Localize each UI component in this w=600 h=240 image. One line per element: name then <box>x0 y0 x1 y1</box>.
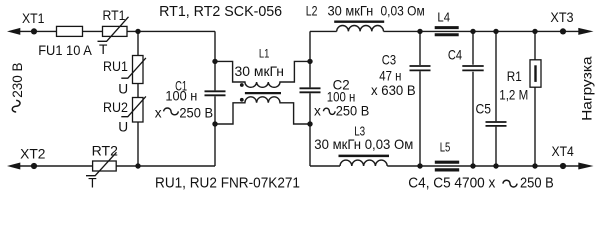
node C3 bottom junction <box>417 163 422 168</box>
svg-text:30 мкГн 0,03 Ом: 30 мкГн 0,03 Ом <box>314 137 413 152</box>
svg-text:250 В: 250 В <box>520 175 554 192</box>
wire bottom-right rail with L3 winding gap <box>310 165 579 167</box>
label C1 voltage x ~250 V <box>155 105 213 120</box>
svg-text:C5: C5 <box>476 102 492 117</box>
svg-text:XT3: XT3 <box>550 10 574 25</box>
svg-text:100 н: 100 н <box>165 89 197 104</box>
svg-text:R1: R1 <box>507 69 522 84</box>
svg-text:U: U <box>118 82 128 97</box>
svg-text:FU1 10 A: FU1 10 A <box>38 43 92 58</box>
thermistor RT1 <box>98 17 129 42</box>
svg-text:x: x <box>314 104 321 119</box>
svg-text:100 н: 100 н <box>327 89 356 104</box>
label C2 voltage x ~250 V <box>314 104 369 119</box>
resistor R1 inner bar <box>534 65 536 82</box>
wire top-right rail with L2 winding gap <box>310 30 579 32</box>
svg-text:x 630 В: x 630 В <box>371 83 416 98</box>
varistor RU1 <box>121 56 146 84</box>
svg-text:Нагрузка: Нагрузка <box>579 56 594 121</box>
svg-text:T: T <box>99 42 108 57</box>
node C1 bottom junction <box>212 121 217 126</box>
wire C2 vertical line x=310 <box>309 31 311 166</box>
capacitor C4 plates <box>462 66 483 70</box>
inductor L2 winding arcs <box>337 25 384 31</box>
node C1 top junction <box>212 59 217 64</box>
wire C3 branch x=420 <box>419 31 421 166</box>
terminal XT3 arrow <box>578 28 593 35</box>
node C4 bottom junction <box>470 163 475 168</box>
node C2 top junction <box>307 59 312 64</box>
svg-text:T: T <box>88 175 97 190</box>
fuse FU1 <box>57 26 83 36</box>
svg-text:RU1: RU1 <box>103 59 128 74</box>
wire L1 top winding path <box>215 61 310 87</box>
node junction RT2/RU2 <box>135 163 140 168</box>
svg-text:C4: C4 <box>448 47 463 62</box>
svg-text:L1: L1 <box>259 47 270 61</box>
svg-text:0,03 Ом: 0,03 Ом <box>381 4 425 19</box>
svg-text:250 В: 250 В <box>179 105 213 120</box>
svg-text:RT1, RT2 SCK-056: RT1, RT2 SCK-056 <box>159 3 282 20</box>
svg-text:230 В: 230 В <box>10 63 25 98</box>
svg-text:RT2: RT2 <box>92 143 118 158</box>
node R1 top junction <box>532 29 537 34</box>
node C4 top junction <box>470 29 475 34</box>
transformer L1 core bar <box>245 92 281 94</box>
label caption C4, C5 4700 x ~ 250 V <box>408 175 553 192</box>
inductor L5 ferrite bars <box>435 162 459 170</box>
wire RU1/RU2 vertical line x=138 <box>137 31 139 166</box>
terminal XT3 pin dot <box>560 28 566 34</box>
node L1 top winding polarity dot <box>240 83 244 87</box>
svg-text:RU1, RU2 FNR-07K271: RU1, RU2 FNR-07K271 <box>155 175 300 192</box>
wire R1 branch x=535 <box>534 31 536 166</box>
svg-text:30 мкГн: 30 мкГн <box>235 64 285 79</box>
varistor RU2 <box>121 96 146 122</box>
svg-text:L2: L2 <box>306 4 318 19</box>
capacitor C3 plates <box>410 66 431 70</box>
wire C5 branch x=496 <box>495 31 497 166</box>
svg-text:x: x <box>155 105 162 120</box>
node C2 bottom junction <box>307 121 312 126</box>
node C5 top junction <box>493 29 498 34</box>
terminal XT1 pin dot <box>31 28 37 34</box>
svg-text:250 В: 250 В <box>336 104 370 119</box>
svg-text:C4, C5 4700 x: C4, C5 4700 x <box>408 175 495 192</box>
svg-text:U: U <box>118 120 128 135</box>
svg-text:L5: L5 <box>440 141 451 155</box>
resistor R1 <box>530 60 541 87</box>
svg-text:XT4: XT4 <box>552 144 575 159</box>
svg-text:L4: L4 <box>437 11 450 25</box>
capacitor C2 plates <box>300 88 321 92</box>
wire bottom-left rail <box>19 165 215 167</box>
wire top-left rail from XT1 to corner, down to bottom rail <box>19 30 215 32</box>
inductor L2 core bar <box>334 21 384 23</box>
node C3 top junction <box>417 29 422 34</box>
svg-text:30 мкГн: 30 мкГн <box>328 4 374 19</box>
svg-text:C3: C3 <box>382 53 397 68</box>
svg-text:XT2: XT2 <box>20 147 45 162</box>
inductor L4 ferrite bars <box>435 28 459 35</box>
svg-text:RT1: RT1 <box>103 8 126 23</box>
node C5 bottom junction <box>493 163 498 168</box>
svg-text:XT1: XT1 <box>22 11 45 26</box>
wire C4 branch x=473 <box>472 31 474 166</box>
svg-text:1,2 М: 1,2 М <box>499 88 528 103</box>
terminal XT2 pin dot <box>31 163 37 169</box>
inductor L3 core bar <box>339 155 390 158</box>
capacitor C1 plates <box>205 91 226 95</box>
terminal XT2 arrow <box>7 163 20 170</box>
svg-text:47 н: 47 н <box>379 69 401 84</box>
label ~230 V rotated <box>10 63 25 113</box>
wire vertical line x=215 (C1 branch) <box>214 31 216 166</box>
node L1 bottom winding polarity dot <box>240 98 244 102</box>
node R1 bottom junction <box>532 163 537 168</box>
inductor L3 winding arcs <box>340 160 387 166</box>
capacitor C5 plates <box>486 122 507 126</box>
terminal XT1 arrow <box>7 28 20 35</box>
svg-text:RU2: RU2 <box>103 100 128 115</box>
terminal XT4 pin dot <box>560 163 566 169</box>
thermistor RT2 <box>86 152 117 175</box>
terminal XT4 arrow <box>578 163 593 170</box>
node junction RT1/RU1 <box>135 29 140 34</box>
wire L1 bottom winding path <box>215 97 310 124</box>
